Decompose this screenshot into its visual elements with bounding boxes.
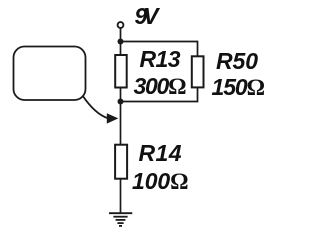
svg-text:9V: 9V <box>135 3 161 29</box>
svg-text:R50: R50 <box>216 48 258 74</box>
svg-text:R13: R13 <box>140 46 181 72</box>
svg-text:100Ω: 100Ω <box>132 168 189 194</box>
svg-text:R14: R14 <box>139 140 182 166</box>
svg-text:300Ω: 300Ω <box>134 73 187 99</box>
svg-text:150Ω: 150Ω <box>212 74 266 100</box>
